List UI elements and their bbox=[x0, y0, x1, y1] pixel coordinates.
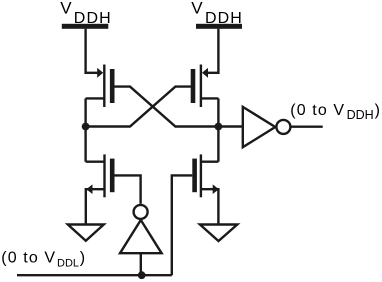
wire: VDDH left rail down to M1 source bbox=[86, 29, 98, 73]
transistor M3 (NMOS left) gate bar bbox=[110, 159, 115, 193]
svg-text:): ) bbox=[375, 102, 380, 119]
svg-text:V: V bbox=[60, 0, 72, 17]
inverter U1 triangle bbox=[120, 220, 162, 253]
transistor M1 (PMOS left) channel line bbox=[103, 65, 105, 108]
svg-text:DDH: DDH bbox=[205, 10, 243, 27]
transistor M2 (PMOS right) channel line bbox=[200, 65, 202, 108]
wire: VDDH right rail down to M2 source bbox=[208, 29, 219, 73]
node dot input node bbox=[138, 271, 146, 279]
ground symbol left bbox=[68, 225, 104, 241]
buffer U2 output bubble bbox=[276, 120, 290, 134]
svg-text:(0 to V: (0 to V bbox=[290, 102, 345, 119]
wire: cross-coupling M2 gate to left node bbox=[86, 87, 191, 127]
transistor M1 (PMOS left) gate bar bbox=[110, 69, 115, 103]
wire: input line bbox=[17, 274, 172, 276]
transistor M1 drain lead bbox=[86, 97, 105, 99]
wire: M3 gate to inverter U1 output bubble bbox=[115, 175, 141, 203]
svg-text:DDH: DDH bbox=[74, 10, 112, 27]
transistor M4 (NMOS right) gate bar bbox=[192, 159, 197, 193]
svg-text:DDL: DDL bbox=[57, 257, 79, 269]
label VDDH right bbox=[191, 0, 243, 27]
wire: left column vertical (M1 drain to M3 drain through node) bbox=[84, 98, 86, 161]
ground symbol right bbox=[200, 225, 237, 242]
transistor M3 (NMOS left) drain lead bbox=[86, 160, 105, 162]
svg-text:): ) bbox=[80, 249, 85, 266]
wire: inverter U1 input from input line bbox=[140, 253, 142, 275]
label VDDH left bbox=[60, 0, 111, 27]
svg-text:V: V bbox=[191, 0, 203, 18]
power bar VDDH left bbox=[62, 24, 109, 29]
transistor M3 (NMOS left) channel line bbox=[103, 154, 105, 197]
inverter U1 output bubble bbox=[134, 205, 148, 219]
transistor M2 drain lead bbox=[201, 97, 219, 99]
node dot left output node bbox=[82, 123, 90, 131]
transistor M3 source arrow bbox=[86, 184, 92, 194]
node dot right output node bbox=[215, 123, 223, 131]
transistor M1 (PMOS left) source arrow bbox=[97, 68, 103, 78]
transistor M4 source lead to ground bbox=[201, 189, 219, 224]
svg-text:(0 to V: (0 to V bbox=[1, 249, 56, 266]
transistor M2 (PMOS right) source arrow bbox=[202, 68, 208, 78]
buffer U2 triangle bbox=[243, 107, 275, 147]
label input (0 to VDDL) bbox=[1, 249, 85, 269]
wire: right column vertical (M2 drain to M4 drain through node) bbox=[217, 98, 219, 161]
transistor M4 source arrow bbox=[213, 184, 219, 194]
wire: cross-coupling M1 gate to right node and buffer input bbox=[115, 87, 243, 127]
transistor M4 (NMOS right) drain lead bbox=[201, 160, 219, 162]
wire: output line bbox=[291, 125, 323, 127]
transistor M3 source lead to ground bbox=[86, 189, 105, 224]
svg-text:DDH: DDH bbox=[347, 108, 374, 122]
transistor M2 (PMOS right) gate bar bbox=[191, 69, 196, 103]
label output (0 to VDDH) bbox=[290, 102, 380, 122]
transistor M4 (NMOS right) channel line bbox=[200, 154, 202, 197]
wire: M4 gate down to input line bbox=[172, 175, 193, 275]
power bar VDDH right bbox=[196, 24, 242, 29]
